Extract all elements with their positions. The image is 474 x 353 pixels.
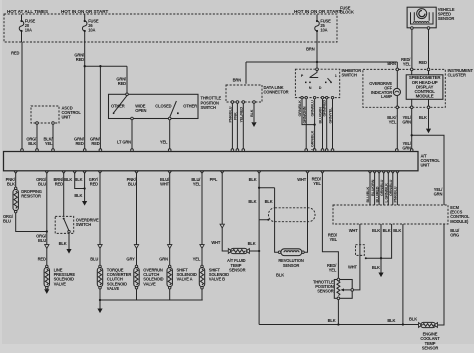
svg-text:BLK: BLK [372, 228, 380, 233]
svg-text:VALVE: VALVE [107, 286, 120, 291]
svg-text:HOT IN ON OR START: HOT IN ON OR START [61, 9, 108, 14]
svg-text:RED: RED [38, 256, 46, 261]
svg-text:BLU/ORN: BLU/ORN [371, 179, 375, 196]
svg-text:N: N [309, 86, 312, 90]
svg-text:CLOSED: CLOSED [155, 103, 171, 108]
svg-text:GRN: GRN [402, 119, 411, 124]
svg-text:D: D [319, 86, 322, 90]
svg-text:GRN/ORN: GRN/ORN [302, 106, 306, 123]
svg-text:RED: RED [419, 60, 427, 65]
svg-text:BLOCK: BLOCK [340, 10, 354, 15]
svg-text:BLU/RED: BLU/RED [375, 186, 379, 202]
svg-text:BLU: BLU [128, 181, 136, 186]
svg-text:BLU/BLK: BLU/BLK [366, 186, 370, 202]
svg-text:PNK: PNK [233, 112, 237, 120]
svg-text:BLK: BLK [372, 265, 380, 270]
svg-text:SWITCH: SWITCH [342, 72, 357, 77]
svg-text:HOT IN ON OR START: HOT IN ON OR START [294, 9, 341, 14]
svg-text:CLUSTER: CLUSTER [448, 73, 466, 78]
svg-text:YEL: YEL [329, 237, 337, 242]
svg-text:WHT: WHT [160, 181, 170, 186]
svg-text:SENSOR: SENSOR [438, 16, 455, 21]
svg-text:WHT: WHT [211, 240, 221, 245]
svg-text:PNK/BLU: PNK/BLU [394, 186, 398, 202]
svg-text:BLU: BLU [38, 238, 46, 243]
svg-text:BLK: BLK [7, 181, 15, 186]
svg-text:YEL: YEL [403, 62, 411, 67]
svg-text:RED: RED [118, 81, 126, 86]
svg-text:BLK: BLK [64, 177, 72, 182]
svg-text:RED: RED [11, 51, 19, 56]
svg-text:WHT: WHT [297, 177, 307, 182]
svg-text:BLK: BLK [409, 316, 417, 321]
svg-text:YEL: YEL [329, 267, 337, 272]
svg-text:BLK: BLK [250, 109, 254, 117]
svg-text:BLK: BLK [328, 318, 336, 323]
svg-text:GRN/BLU: GRN/BLU [380, 179, 384, 196]
svg-text:BLK: BLK [248, 199, 256, 204]
svg-text:SENSOR: SENSOR [229, 268, 246, 273]
svg-text:BLK: BLK [419, 115, 427, 120]
svg-text:WHT: WHT [348, 265, 358, 270]
svg-text:BRN: BRN [387, 61, 396, 66]
svg-text:YEL: YEL [160, 140, 168, 145]
svg-text:BLK: BLK [249, 177, 257, 182]
svg-text:BLK: BLK [28, 141, 36, 146]
svg-text:RED: RED [91, 141, 99, 146]
svg-text:RED: RED [76, 57, 84, 62]
svg-text:RED: RED [55, 181, 63, 186]
svg-text:MODULE: MODULE [416, 94, 434, 99]
svg-text:BLU: BLU [90, 256, 98, 261]
svg-text:WHT: WHT [349, 228, 359, 233]
svg-text:ORG: ORG [450, 233, 459, 238]
svg-text:SWITCH: SWITCH [76, 222, 91, 227]
svg-text:OPEN: OPEN [135, 108, 146, 113]
svg-text:VALVE: VALVE [143, 281, 156, 286]
svg-text:10A: 10A [88, 27, 95, 32]
svg-text:PNK/BLU: PNK/BLU [228, 106, 232, 122]
svg-text:SENSOR: SENSOR [283, 263, 300, 268]
svg-text:BLK: BLK [265, 199, 273, 204]
svg-text:HOT AT ALL TIMES: HOT AT ALL TIMES [7, 9, 48, 14]
svg-text:GRY: GRY [126, 256, 135, 261]
svg-text:L GRN/BLK: L GRN/BLK [310, 130, 314, 150]
svg-text:BLU: BLU [3, 219, 11, 224]
svg-text:BLU: BLU [38, 181, 46, 186]
svg-text:RED: RED [90, 181, 98, 186]
svg-text:SENSOR: SENSOR [422, 345, 439, 350]
svg-text:SENSOR: SENSOR [317, 289, 334, 294]
svg-text:YEL: YEL [389, 119, 397, 124]
svg-text:YEL/RED: YEL/RED [239, 107, 243, 123]
svg-text:VALVE B: VALVE B [209, 277, 225, 282]
svg-text:10A: 10A [25, 27, 32, 32]
svg-text:BLK: BLK [248, 241, 256, 246]
svg-text:GRN: GRN [434, 192, 443, 197]
svg-text:VALVE A: VALVE A [177, 277, 193, 282]
svg-text:BRN: BRN [306, 47, 315, 52]
svg-text:GRN/RED: GRN/RED [323, 100, 327, 117]
svg-text:BLK: BLK [59, 241, 67, 246]
svg-text:BLK: BLK [276, 273, 284, 278]
svg-text:YEL: YEL [45, 141, 53, 146]
svg-text:BLK: BLK [74, 193, 82, 198]
svg-text:LAMP: LAMP [381, 94, 392, 99]
svg-text:L GRN/BLK: L GRN/BLK [385, 183, 389, 203]
svg-text:GRN/BLU: GRN/BLU [310, 100, 314, 117]
svg-text:UNIT: UNIT [421, 163, 431, 168]
svg-text:OTHER: OTHER [111, 103, 125, 108]
svg-text:SWITCH: SWITCH [201, 105, 216, 110]
svg-text:MODULE): MODULE) [450, 219, 469, 224]
svg-text:ORN/BLU: ORN/BLU [389, 179, 393, 196]
svg-text:BLK: BLK [387, 318, 395, 323]
svg-text:YEL: YEL [193, 181, 201, 186]
svg-text:GRN: GRN [159, 256, 168, 261]
svg-text:GRN/YEL: GRN/YEL [329, 107, 333, 124]
svg-text:OTHER: OTHER [183, 103, 197, 108]
svg-text:PPL: PPL [210, 177, 218, 182]
svg-text:1: 1 [335, 74, 337, 78]
svg-text:10A: 10A [320, 27, 327, 32]
svg-text:LT GRN: LT GRN [117, 140, 131, 145]
svg-text:BLK: BLK [393, 228, 401, 233]
svg-text:UNIT: UNIT [62, 115, 72, 120]
svg-text:CONNECTOR: CONNECTOR [264, 90, 289, 95]
svg-text:RESISTOR: RESISTOR [21, 193, 41, 198]
svg-text:GRN/BLK: GRN/BLK [298, 100, 302, 117]
svg-text:BLK: BLK [383, 228, 391, 233]
svg-text:RED: RED [75, 141, 83, 146]
svg-text:YEL: YEL [313, 181, 321, 186]
svg-text:BLK: BLK [74, 177, 82, 182]
svg-text:VALVE: VALVE [54, 281, 67, 286]
svg-text:GRN: GRN [402, 146, 411, 151]
svg-text:BRN: BRN [233, 77, 242, 82]
svg-text:YEL: YEL [193, 256, 201, 261]
